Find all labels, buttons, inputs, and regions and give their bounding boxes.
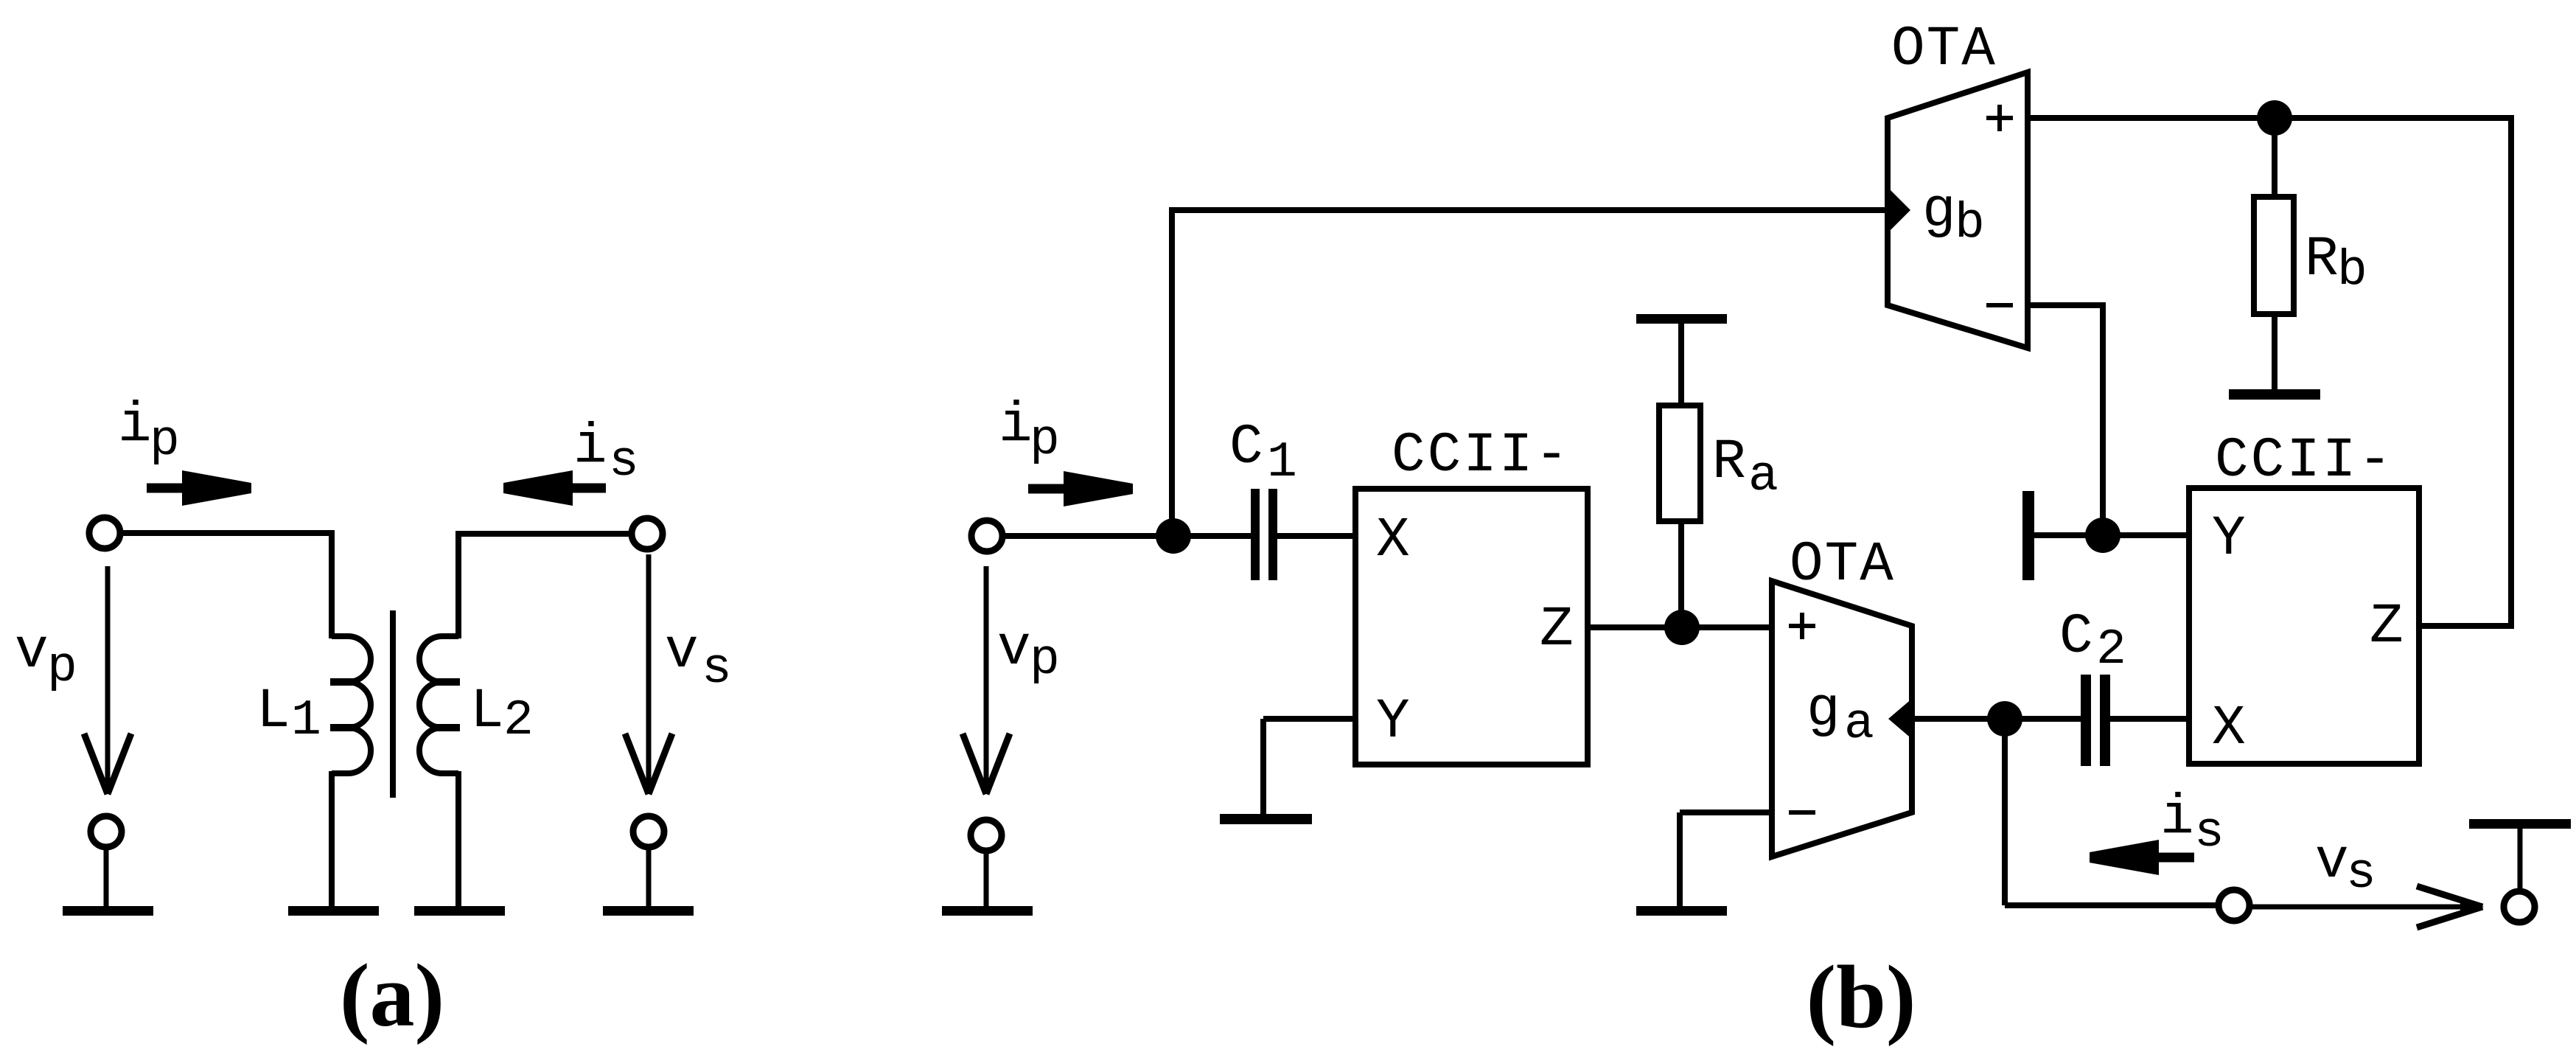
svg-text:Y: Y [1376, 690, 1410, 753]
svg-text:Z: Z [2370, 595, 2404, 658]
svg-text:s: s [702, 641, 732, 697]
wire U1 Y to ground [1263, 716, 1358, 722]
capacitor C1 [1251, 489, 1260, 580]
svg-text:R: R [1712, 431, 1746, 494]
svg-text:(b): (b) [1806, 947, 1916, 1047]
wire L1 to ground [329, 771, 335, 908]
svg-text:p: p [1030, 632, 1060, 689]
svg-text:CCII-: CCII- [2215, 429, 2394, 492]
svg-text:g: g [1922, 179, 1956, 243]
wire U2 Z to right bus [2419, 623, 2514, 629]
node vp top terminal (a) [89, 518, 120, 549]
wire secondary top (a) [458, 531, 632, 537]
svg-text:a: a [1748, 448, 1779, 505]
wire gb minus output down to U2 Y [2100, 305, 2106, 538]
svg-text:s: s [2346, 846, 2376, 902]
current arrow ip (b) [1028, 471, 1133, 506]
output arrowhead ga [1888, 697, 1913, 740]
junction U2 Y node [2085, 518, 2121, 553]
svg-text:(a): (a) [340, 946, 444, 1045]
svg-text:C: C [2059, 605, 2093, 669]
ground at U2 Y (sideways) [2022, 491, 2034, 580]
ground under L1 [288, 906, 379, 916]
current arrow ip (a) [147, 470, 251, 506]
wire primary down to L1 [329, 530, 335, 638]
svg-text:R: R [2305, 228, 2339, 291]
svg-text:1: 1 [1267, 434, 1297, 491]
svg-text:Y: Y [2212, 507, 2246, 571]
inductor L1 [332, 636, 371, 773]
junction Z1 node [1664, 610, 1700, 645]
ground under vp terminal (a) [63, 906, 153, 916]
wire vs right terminal to ground [2518, 829, 2523, 891]
svg-text:2: 2 [2096, 621, 2126, 678]
current arrow is (a) [503, 470, 606, 506]
svg-text:p: p [47, 639, 77, 696]
svg-text:i: i [2160, 786, 2194, 849]
wire vp terminal to ground [104, 847, 109, 908]
svg-text:v: v [997, 617, 1031, 680]
svg-text:X: X [2212, 697, 2246, 760]
node input terminal (b) [971, 520, 1002, 551]
svg-text:s: s [609, 434, 639, 490]
wire gb plus output [2028, 115, 2514, 121]
wire vs terminal to ground [646, 847, 652, 908]
minus input ga [1789, 810, 1815, 815]
ground under vs terminal (a) [603, 906, 694, 916]
node vs right terminal (b) [2504, 891, 2535, 922]
svg-text:L: L [470, 680, 504, 743]
svg-text:1: 1 [291, 692, 321, 749]
ground above vs right terminal [2469, 819, 2571, 829]
svg-text:v: v [665, 620, 699, 683]
node vp bottom terminal (a) [91, 816, 122, 847]
node vs top terminal (a) [632, 518, 663, 549]
junction input node [1156, 518, 1191, 554]
wire primary top (a) [120, 530, 332, 536]
ground above Ra [1636, 314, 1727, 324]
wire ga minus to ground [1680, 809, 1772, 815]
minus output gb [1986, 303, 2013, 307]
svg-text:OTA: OTA [1790, 533, 1895, 596]
svg-text:v: v [15, 620, 49, 683]
plus input ga [1789, 624, 1815, 628]
node vp bottom terminal (b) [971, 820, 1002, 851]
voltage arrow vs (b) [2250, 905, 2482, 910]
svg-text:v: v [2315, 830, 2349, 894]
svg-text:p: p [1030, 412, 1060, 469]
ground under vp terminal (b) [942, 906, 1033, 916]
svg-text:s: s [2194, 804, 2224, 861]
wire feedback riser [1169, 207, 1175, 536]
node vs left terminal (b) [2219, 890, 2249, 921]
wire ga output to C2 [1912, 716, 2081, 722]
voltage arrow vp (a) [105, 566, 111, 794]
CCII- block U2 [2189, 488, 2419, 764]
ground at ga minus [1636, 906, 1727, 916]
wire C1 to CCII-1 X [1277, 533, 1355, 539]
svg-text:Z: Z [1540, 598, 1574, 661]
ground under Rb [2229, 389, 2320, 400]
wire input to C1 [1002, 533, 1251, 539]
wire right bus [2508, 115, 2514, 629]
resistor Rb [2272, 118, 2277, 197]
resistor Ra [1678, 521, 1684, 630]
svg-text:CCII-: CCII- [1392, 424, 1571, 487]
ground at U1 Y [1220, 814, 1312, 824]
svg-text:L: L [256, 680, 290, 743]
op-amp OTA gb [1888, 72, 2028, 348]
wire C2 to CCII-2 X [2110, 716, 2189, 722]
svg-text:g: g [1807, 678, 1840, 742]
inductor L2 [419, 636, 458, 773]
svg-text:b: b [2337, 243, 2367, 299]
svg-text:a: a [1844, 696, 1874, 753]
svg-text:OTA: OTA [1891, 18, 1997, 81]
svg-text:i: i [573, 415, 607, 478]
op-amp OTA ga [1772, 581, 1912, 857]
wire feedback top to gb input [1169, 207, 1888, 213]
svg-text:b: b [1955, 195, 1985, 252]
voltage arrow vs (a) [646, 554, 652, 794]
wire vp terminal to ground (b) [984, 851, 989, 908]
wire output node down to vs terminal [2002, 719, 2008, 905]
svg-text:C: C [1229, 416, 1263, 479]
voltage arrow vp (b) [984, 566, 989, 794]
svg-text:i: i [999, 394, 1033, 457]
svg-text:2: 2 [503, 692, 534, 749]
wire U2 Y to ground [2034, 532, 2189, 538]
input arrowhead gb [1888, 187, 1910, 233]
wire U1 Z to ga + [1588, 624, 1772, 630]
ground under L2 [414, 906, 505, 916]
plus output gb [1986, 116, 2013, 120]
capacitor C2 [2081, 675, 2091, 766]
svg-text:p: p [150, 413, 180, 470]
wire secondary down to L2 [455, 531, 461, 638]
CCII- block U1 [1355, 489, 1588, 765]
svg-text:X: X [1376, 509, 1410, 572]
junction output node (is/vs) [1987, 701, 2022, 737]
transformer core [390, 610, 396, 798]
current arrow is (b) [2090, 840, 2194, 875]
node vs bottom terminal (a) [633, 816, 664, 847]
wire L2 to ground [455, 771, 461, 908]
svg-text:i: i [118, 394, 152, 457]
junction Rb node [2257, 100, 2292, 136]
